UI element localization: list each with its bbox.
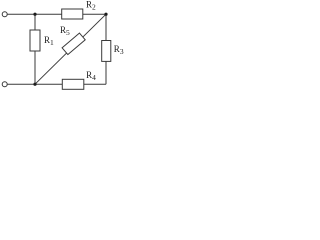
wire top horizontal — [7, 13, 106, 15]
terminal top-left — [2, 12, 7, 17]
resistor R2 — [62, 9, 83, 19]
resistor R1 — [30, 30, 40, 51]
wire diagonal branch — [35, 14, 106, 84]
wire bottom horizontal — [7, 83, 106, 85]
terminal bottom-left — [2, 82, 7, 87]
resistor R4 — [62, 79, 84, 89]
resistor R5 (diagonal) — [62, 33, 85, 55]
node junction top (R1/top wire) — [33, 13, 36, 16]
wire R1 branch vertical — [34, 14, 36, 84]
node junction bottom (R1/diagonal/bottom wire) — [33, 83, 36, 86]
node junction top-right corner — [104, 13, 107, 16]
wire right vertical — [105, 14, 107, 84]
resistor R3 — [102, 41, 111, 62]
